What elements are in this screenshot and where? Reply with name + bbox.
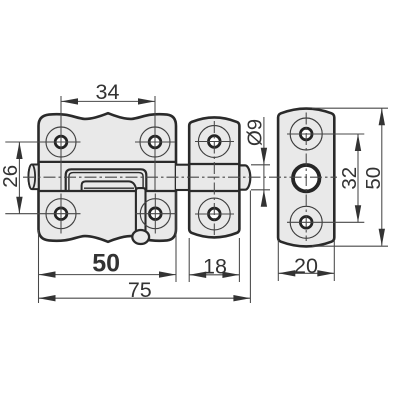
extension line rod diameter bottom bbox=[251, 189, 270, 191]
countersink circle hole C1 keeper top bbox=[290, 118, 322, 150]
screw hole A3 bbox=[55, 208, 67, 220]
svg-text:50: 50 bbox=[362, 167, 385, 190]
dimension diameter 9 arrow bottom bbox=[261, 190, 267, 207]
dimension 50 bottom arrow right bbox=[159, 271, 176, 277]
extension line guide right edge bbox=[238, 238, 240, 282]
dimension 75 line bbox=[39, 297, 251, 299]
dimension 20 arrow left bbox=[278, 270, 295, 276]
dimension 50 right arrow bottom bbox=[379, 229, 385, 246]
dimension 26 arrow top bbox=[16, 142, 22, 159]
screw hole C2 bbox=[300, 216, 312, 228]
guide barrel top edge bbox=[189, 163, 239, 165]
screw hole A2 bbox=[149, 136, 161, 148]
extension line rod diameter top bbox=[251, 164, 270, 166]
svg-text:34: 34 bbox=[96, 80, 120, 104]
screw hole A1 bbox=[55, 136, 67, 148]
crosshair hole A4 vertical bbox=[154, 194, 156, 234]
bolt rod in gap bbox=[176, 165, 189, 190]
bolt housing band top edge bbox=[39, 161, 177, 163]
dimension 18 arrow right bbox=[222, 272, 239, 278]
screw hole A4 bbox=[149, 208, 161, 220]
countersink circle hole A2 top-right bbox=[140, 127, 170, 157]
dimension 34 arrow right bbox=[138, 98, 155, 104]
dimension 50 right arrow top bbox=[379, 108, 385, 125]
knob ball bbox=[132, 230, 149, 244]
bolt housing band bottom edge bbox=[39, 190, 177, 192]
guide barrel bottom edge bbox=[189, 190, 239, 192]
crosshair hole A4 horizontal bbox=[136, 213, 176, 215]
crosshair hole A1 vertical + 34 extension bbox=[60, 96, 62, 190]
dimension 34 arrow left bbox=[61, 98, 78, 104]
countersink circle hole C2 keeper bottom bbox=[290, 206, 322, 238]
dimension 18 arrow left bbox=[189, 272, 206, 278]
bolt hole keeper center bbox=[293, 165, 319, 191]
screw hole C1 bbox=[300, 128, 312, 140]
crosshair hole A3 vertical bbox=[60, 194, 62, 234]
dimension diameter 9 arrow top bbox=[261, 148, 267, 165]
svg-text:75: 75 bbox=[128, 278, 152, 302]
grip tab inner line bbox=[84, 187, 134, 189]
screw hole B1 bbox=[208, 136, 220, 148]
dimension 50 right line bbox=[381, 108, 383, 246]
svg-text:32: 32 bbox=[338, 167, 361, 190]
crosshair hole A1 horizontal + 26 extension bbox=[5, 141, 80, 143]
crosshair hole B1 horizontal bbox=[195, 141, 234, 143]
main plate bbox=[39, 113, 177, 242]
svg-text:20: 20 bbox=[294, 254, 318, 278]
countersink circle hole A3 bottom-left bbox=[46, 199, 76, 229]
countersink circle hole A1 top-left bbox=[46, 127, 76, 157]
dimension 20 line bbox=[278, 272, 334, 274]
dimension 20 arrow right bbox=[317, 270, 334, 276]
extension line guide left edge bbox=[188, 238, 190, 282]
bolt rod end cap right bbox=[239, 165, 250, 189]
crosshair hole B2 horizontal bbox=[195, 213, 234, 215]
dimension 75 arrow left bbox=[39, 295, 56, 301]
countersink circle hole B2 guide bottom bbox=[198, 198, 230, 230]
extension line keeper top edge bbox=[312, 107, 388, 109]
extension line keeper left edge bbox=[277, 240, 279, 281]
extension line rod tip bbox=[249, 191, 251, 304]
main centerline axis bbox=[23, 176, 337, 178]
dimension 34 line bbox=[61, 100, 155, 102]
grip tab bbox=[82, 181, 137, 191]
bolt end cap left bbox=[28, 165, 38, 190]
extension line keeper right edge bbox=[333, 240, 335, 281]
dimension 32 arrow top bbox=[355, 134, 361, 151]
screw hole B2 bbox=[208, 208, 220, 220]
keeper vertical axis bbox=[305, 113, 307, 242]
svg-text:50: 50 bbox=[92, 250, 120, 278]
svg-text:Ø9: Ø9 bbox=[244, 119, 267, 146]
dimension 18 line bbox=[189, 274, 239, 276]
dimension 50 bottom arrow left bbox=[39, 271, 56, 277]
guide piece (middle) bbox=[189, 117, 239, 237]
extension line plate right edge bbox=[175, 192, 177, 282]
guide piece vertical axis bbox=[213, 121, 215, 235]
countersink circle hole A4 bottom-right bbox=[140, 199, 170, 229]
svg-text:26: 26 bbox=[0, 165, 22, 188]
dimension 26 arrow bottom bbox=[16, 197, 22, 214]
crosshair hole A2 horizontal bbox=[135, 141, 175, 143]
crosshair hole C2 horizontal + 32 extension bbox=[287, 221, 364, 223]
crosshair hole A3 horizontal + 26 extension bbox=[5, 213, 80, 215]
dimension 26 line bbox=[18, 142, 20, 214]
crosshair hole A2 vertical + 34 extension bbox=[154, 96, 156, 190]
extension line keeper bottom edge bbox=[312, 245, 388, 247]
dimension 32 line bbox=[357, 134, 359, 222]
dimension 50 bottom line bbox=[39, 274, 177, 276]
slider bracket inner line bbox=[69, 173, 143, 191]
keeper plate (right) bbox=[278, 109, 334, 247]
knob rod bbox=[136, 188, 146, 231]
dimension 32 arrow bottom bbox=[355, 205, 361, 222]
countersink circle hole B1 guide top bbox=[198, 126, 230, 158]
dimension 75 arrow right bbox=[233, 295, 250, 301]
crosshair hole C1 horizontal + 32 extension bbox=[287, 133, 364, 135]
dimension diameter 9 line bbox=[263, 117, 265, 205]
slider bracket outer bbox=[66, 169, 147, 191]
extension line plate left edge bbox=[38, 230, 40, 303]
svg-text:18: 18 bbox=[203, 254, 227, 278]
